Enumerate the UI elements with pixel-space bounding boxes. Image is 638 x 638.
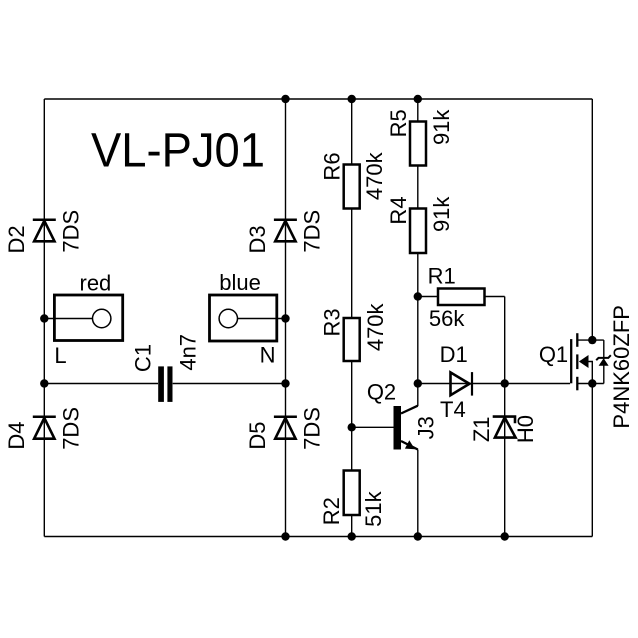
svg-text:7DS: 7DS xyxy=(300,407,325,450)
svg-text:red: red xyxy=(80,270,112,295)
svg-text:470k: 470k xyxy=(363,302,388,351)
svg-text:91k: 91k xyxy=(429,109,454,145)
svg-text:D4: D4 xyxy=(4,422,29,450)
svg-text:R6: R6 xyxy=(320,152,345,180)
svg-text:R3: R3 xyxy=(319,308,344,336)
svg-text:J3: J3 xyxy=(414,416,439,439)
svg-text:R1: R1 xyxy=(428,264,456,289)
svg-text:R5: R5 xyxy=(386,109,411,137)
svg-text:P4NK60ZFP: P4NK60ZFP xyxy=(609,305,634,429)
svg-text:7DS: 7DS xyxy=(300,210,325,253)
svg-text:51k: 51k xyxy=(361,490,386,526)
svg-text:blue: blue xyxy=(219,270,261,295)
svg-text:4n7: 4n7 xyxy=(176,334,201,371)
svg-text:D5: D5 xyxy=(245,422,270,450)
svg-text:D3: D3 xyxy=(245,225,270,253)
svg-text:91k: 91k xyxy=(429,196,454,232)
svg-text:56k: 56k xyxy=(429,306,465,331)
svg-text:D2: D2 xyxy=(4,225,29,253)
svg-text:Q2: Q2 xyxy=(367,379,396,404)
svg-text:D1: D1 xyxy=(440,342,468,367)
svg-text:T4: T4 xyxy=(440,397,466,422)
svg-text:R2: R2 xyxy=(319,497,344,525)
svg-text:C1: C1 xyxy=(131,344,156,372)
svg-text:Q1: Q1 xyxy=(539,342,568,367)
svg-text:H0: H0 xyxy=(513,415,538,443)
svg-text:VL-PJ01: VL-PJ01 xyxy=(91,125,265,178)
svg-text:7DS: 7DS xyxy=(59,407,84,450)
svg-text:Z1: Z1 xyxy=(469,416,494,442)
svg-text:L: L xyxy=(54,343,66,368)
svg-text:7DS: 7DS xyxy=(59,210,84,253)
svg-text:470k: 470k xyxy=(362,151,387,200)
svg-text:N: N xyxy=(260,343,276,368)
svg-text:R4: R4 xyxy=(386,196,411,224)
